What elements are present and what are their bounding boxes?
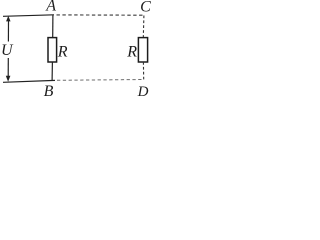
- svg-text:A: A: [45, 0, 56, 15]
- svg-text:D: D: [137, 84, 149, 99]
- wire top rail dashed A-C: [57, 14, 146, 16]
- wire bottom rail solid left-B: [3, 80, 55, 82]
- svg-text:R: R: [126, 43, 137, 60]
- voltage arrow U head up: [6, 16, 11, 22]
- svg-text:B: B: [44, 83, 54, 99]
- voltage arrow U shaft bottom: [7, 58, 9, 77]
- wire left column top (A to R1): [52, 15, 54, 38]
- wire right column dashed bottom (R2 to D): [142, 62, 144, 80]
- wire bottom rail dashed B-D: [57, 79, 144, 82]
- resistor R2: [138, 38, 147, 62]
- svg-text:C: C: [140, 0, 151, 16]
- svg-text:R: R: [57, 44, 68, 61]
- wire left column bottom (R1 to B): [51, 62, 53, 81]
- voltage arrow U head down: [6, 76, 11, 82]
- voltage arrow U shaft top: [7, 21, 9, 42]
- resistor R1: [48, 38, 57, 62]
- wire right column dashed top (C to R2): [142, 16, 145, 39]
- svg-text:U: U: [1, 42, 14, 59]
- wire top rail solid A-left: [3, 15, 54, 16]
